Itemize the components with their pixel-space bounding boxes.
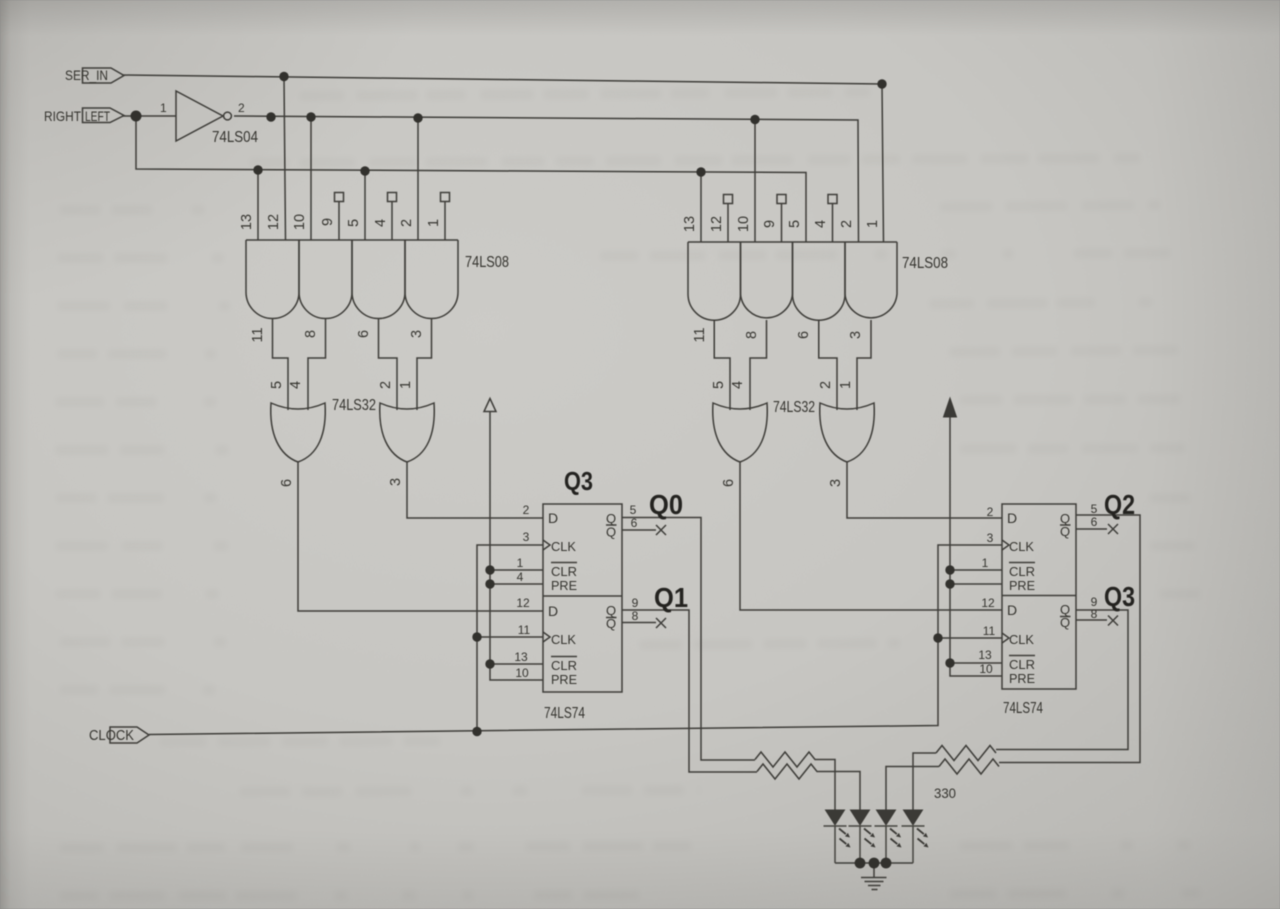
svg-text:3: 3 (409, 330, 425, 338)
svg-text:4: 4 (517, 570, 524, 584)
svg-text:CLK: CLK (551, 539, 576, 554)
svg-text:74LS32: 74LS32 (773, 399, 815, 416)
svg-text:5: 5 (1091, 502, 1098, 516)
svg-text:CLK: CLK (551, 632, 576, 647)
svg-text:11: 11 (692, 327, 708, 342)
svg-text:CLR: CLR (551, 564, 577, 579)
svg-text:D: D (1007, 602, 1017, 618)
svg-text:330: 330 (934, 785, 956, 801)
svg-text:Q1: Q1 (654, 582, 688, 613)
svg-text:LEFT: LEFT (85, 108, 110, 124)
svg-text:5: 5 (346, 219, 362, 227)
svg-text:CLK: CLK (1009, 632, 1034, 647)
svg-text:6: 6 (631, 516, 638, 530)
svg-text:74LS04: 74LS04 (212, 129, 258, 146)
svg-text:2: 2 (818, 381, 834, 389)
svg-text:9: 9 (320, 218, 336, 226)
svg-text:RIGHT: RIGHT (44, 108, 81, 124)
svg-text:12: 12 (266, 214, 282, 230)
svg-text:6: 6 (796, 331, 812, 339)
svg-text:Q0: Q0 (649, 489, 683, 520)
svg-text:6: 6 (721, 479, 737, 487)
svg-text:8: 8 (1091, 607, 1098, 621)
svg-text:2: 2 (839, 220, 855, 228)
svg-text:4: 4 (813, 220, 829, 228)
svg-text:2: 2 (523, 503, 530, 517)
svg-text:3: 3 (828, 479, 844, 487)
svg-text:9: 9 (762, 220, 778, 228)
svg-text:4: 4 (288, 381, 304, 389)
svg-text:Q: Q (1060, 615, 1070, 630)
svg-text:8: 8 (632, 609, 639, 623)
svg-text:5: 5 (269, 381, 285, 389)
svg-text:4: 4 (730, 381, 746, 389)
svg-text:Q: Q (606, 525, 616, 540)
svg-text:5: 5 (711, 381, 727, 389)
svg-text:SER_IN: SER_IN (65, 67, 108, 83)
svg-text:4: 4 (373, 219, 389, 227)
svg-text:13: 13 (514, 650, 528, 664)
svg-text:2: 2 (987, 505, 994, 519)
svg-text:6: 6 (356, 330, 372, 338)
svg-text:2: 2 (399, 219, 415, 227)
svg-text:3: 3 (987, 531, 994, 545)
svg-text:CLK: CLK (1009, 539, 1034, 554)
svg-text:PRE: PRE (1009, 578, 1035, 593)
svg-text:PRE: PRE (1009, 671, 1035, 686)
svg-text:13: 13 (682, 216, 698, 232)
svg-text:6: 6 (279, 479, 295, 487)
svg-text:74LS74: 74LS74 (1003, 700, 1043, 717)
svg-text:Q3: Q3 (1104, 581, 1135, 612)
svg-text:2: 2 (238, 101, 245, 115)
svg-text:5: 5 (630, 503, 637, 517)
svg-text:PRE: PRE (551, 578, 577, 593)
svg-text:12: 12 (981, 596, 995, 610)
svg-text:1: 1 (982, 556, 989, 570)
svg-text:8: 8 (303, 330, 319, 338)
svg-text:13: 13 (239, 214, 255, 230)
svg-text:8: 8 (744, 331, 760, 339)
svg-text:CLOCK: CLOCK (89, 728, 134, 744)
svg-text:74LS08: 74LS08 (902, 255, 948, 272)
svg-text:12: 12 (709, 216, 725, 232)
svg-text:11: 11 (518, 623, 531, 637)
svg-text:1: 1 (398, 381, 414, 389)
svg-text:10: 10 (292, 214, 308, 230)
svg-text:74LS74: 74LS74 (544, 705, 585, 722)
svg-text:1: 1 (517, 556, 524, 570)
svg-text:Q: Q (1060, 524, 1070, 539)
svg-text:3: 3 (848, 331, 864, 339)
svg-text:10: 10 (979, 662, 993, 676)
svg-text:2: 2 (378, 381, 394, 389)
svg-text:3: 3 (388, 478, 404, 486)
svg-text:10: 10 (736, 216, 752, 232)
svg-text:Q: Q (606, 616, 616, 631)
svg-text:12: 12 (516, 596, 530, 610)
svg-text:Q2: Q2 (1104, 489, 1135, 520)
svg-text:10: 10 (515, 666, 529, 680)
svg-text:PRE: PRE (551, 672, 577, 687)
svg-text:D: D (548, 510, 558, 526)
svg-text:Q3: Q3 (564, 466, 593, 496)
svg-text:6: 6 (1091, 515, 1098, 529)
svg-text:1: 1 (160, 101, 167, 115)
svg-text:11: 11 (250, 327, 266, 342)
svg-text:9: 9 (632, 596, 639, 610)
svg-text:3: 3 (523, 530, 530, 544)
svg-text:11: 11 (983, 624, 996, 638)
svg-text:CLR: CLR (1009, 657, 1035, 672)
svg-text:D: D (1007, 510, 1017, 526)
svg-text:1: 1 (838, 381, 854, 389)
svg-text:D: D (548, 603, 558, 619)
svg-text:13: 13 (978, 648, 992, 662)
svg-text:74LS32: 74LS32 (332, 397, 376, 414)
svg-text:CLR: CLR (1009, 564, 1035, 579)
svg-text:1: 1 (426, 219, 442, 227)
svg-text:5: 5 (787, 220, 803, 228)
svg-text:CLR: CLR (551, 658, 577, 673)
svg-text:74LS08: 74LS08 (465, 254, 509, 271)
svg-text:1: 1 (865, 220, 881, 228)
